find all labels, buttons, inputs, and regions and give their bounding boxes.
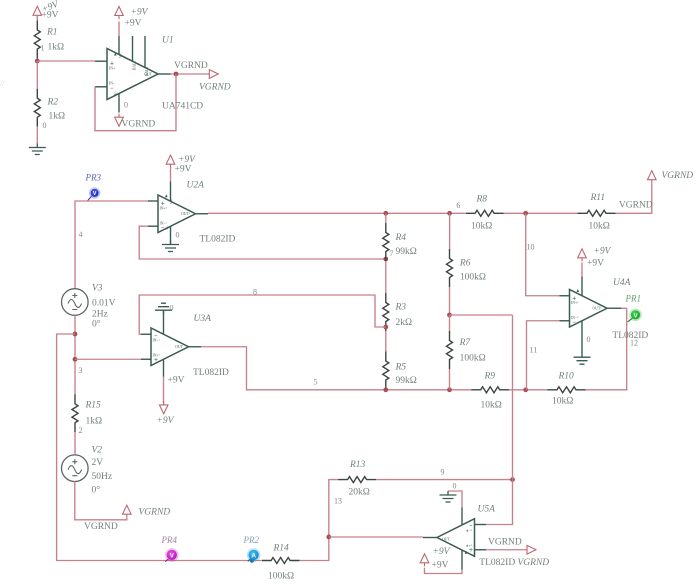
- wire R10 to U4A feedback riser: [586, 308, 627, 390]
- svg-text:0°: 0°: [92, 485, 101, 496]
- svg-text:10kΩ: 10kΩ: [552, 397, 573, 407]
- wire R1 bottom to node A junction: [36, 59, 38, 62]
- svg-text:VGRND: VGRND: [662, 171, 694, 181]
- svg-text:+9V: +9V: [433, 547, 451, 557]
- svg-text:BAL2: BAL2: [132, 60, 136, 70]
- svg-text:IN+: IN+: [109, 66, 115, 70]
- svg-text:R8: R8: [476, 195, 488, 205]
- svg-text:+9V: +9V: [432, 561, 449, 571]
- wire U5A output to net13 junction: [329, 536, 423, 538]
- wire R15 to V2: [74, 432, 76, 455]
- U3A V- pin (top, to ground): [163, 311, 165, 334]
- wire net 10: top rail to U4A IN+: [526, 213, 560, 295]
- VGRND right connector (U1 out): [209, 70, 218, 79]
- svg-text:+9V: +9V: [594, 247, 612, 257]
- ground (U2A): [162, 241, 179, 252]
- svg-text:+9V: +9V: [168, 376, 185, 386]
- resistor R3: [383, 293, 389, 331]
- svg-text:6: 6: [456, 201, 460, 210]
- wire U1 output to VGRND arrow: [171, 73, 210, 75]
- svg-text:R13: R13: [349, 460, 366, 470]
- svg-text:A: A: [251, 553, 256, 560]
- power +9V connector (U1): [115, 7, 124, 20]
- svg-text:−: −: [573, 320, 577, 326]
- junction R6/R7/net9: [447, 313, 452, 318]
- wire R4 to R3: [385, 261, 387, 293]
- svg-text:V2: V2: [92, 446, 103, 456]
- U5A IN+ wire to VGRND connector: [486, 549, 527, 551]
- svg-text:V+: V+: [119, 53, 123, 58]
- svg-text:2: 2: [79, 426, 83, 435]
- junction net13 (U5A out tee): [326, 535, 331, 540]
- U1 output pin stub: [158, 73, 171, 75]
- svg-text:+9V: +9V: [125, 19, 142, 29]
- svg-text:+9V: +9V: [175, 165, 192, 175]
- svg-text:UA741CD: UA741CD: [162, 102, 203, 112]
- svg-text:10kΩ: 10kΩ: [481, 401, 502, 411]
- svg-text:VGRND: VGRND: [518, 558, 550, 568]
- svg-text:R9: R9: [484, 372, 496, 382]
- svg-text:1kΩ: 1kΩ: [49, 112, 66, 122]
- svg-text:R2: R2: [47, 98, 59, 108]
- svg-text:50Hz: 50Hz: [92, 472, 113, 482]
- power +9V connector (U3A, pointing down): [159, 401, 168, 414]
- op-amp U5A triangle (mirrored): [437, 519, 475, 557]
- resistor R15: [72, 394, 78, 432]
- svg-text:OUT¹: OUT¹: [593, 306, 602, 310]
- wire U2A V+ to +9V connector: [170, 168, 172, 182]
- U2A V- pin: [170, 226, 172, 244]
- U5A V- pin (top): [461, 508, 463, 525]
- wire V3 bottom to junctions: [74, 315, 76, 394]
- svg-text:9: 9: [441, 468, 445, 477]
- wire junction to R2: [36, 61, 38, 89]
- svg-text:VGRND: VGRND: [174, 61, 208, 71]
- junction net8 (R3/R5): [383, 325, 388, 330]
- svg-text:100kΩ: 100kΩ: [460, 273, 486, 283]
- svg-text:IN+³: IN+³: [571, 301, 579, 305]
- op-amp U1 triangle: [107, 49, 158, 100]
- wire U4A out to feedback corner: [622, 307, 627, 309]
- svg-text:2kΩ: 2kΩ: [396, 318, 413, 328]
- VGRND up connector (V2): [123, 505, 132, 518]
- wire U4A V+ to +9V connector: [581, 263, 583, 277]
- junction V3-/left rail: [73, 332, 78, 337]
- wire R14 to net13 riser: [300, 480, 339, 561]
- wire R9 to R10: [509, 389, 547, 391]
- svg-text:2Hz: 2Hz: [92, 310, 108, 320]
- svg-text:VGRND: VGRND: [122, 120, 156, 130]
- wire net 11: U4A IN- down to net5: [527, 321, 560, 390]
- resistor R13: [338, 477, 376, 483]
- U2A output pin stub: [196, 213, 209, 215]
- wire net9 riser (R6/R7 junction down to U5A IN-): [486, 315, 513, 525]
- resistor R4: [383, 223, 389, 261]
- svg-text:R4: R4: [395, 233, 407, 243]
- svg-text:R3: R3: [395, 303, 407, 313]
- svg-text:U5A: U5A: [478, 505, 496, 515]
- svg-text:PR4: PR4: [161, 535, 178, 545]
- svg-text:V3: V3: [92, 284, 103, 294]
- svg-text:TL082ID: TL082ID: [193, 368, 229, 378]
- svg-text:0: 0: [124, 101, 128, 110]
- svg-text:4: 4: [79, 230, 83, 239]
- AC source V3: [62, 289, 89, 316]
- svg-text:VGRND: VGRND: [84, 522, 118, 532]
- wire junction right to net9 riser: [450, 314, 513, 316]
- svg-text://: //: [0, 79, 5, 88]
- svg-text:+9V: +9V: [42, 11, 59, 21]
- svg-text:100kΩ: 100kΩ: [268, 572, 294, 582]
- svg-text:0: 0: [587, 335, 591, 344]
- U4A V- pin: [581, 321, 583, 357]
- junction U1 output/feedback: [174, 72, 179, 77]
- svg-text:+9V: +9V: [131, 8, 149, 18]
- svg-text:0°: 0°: [92, 319, 101, 330]
- U4A output pin stub: [607, 307, 622, 309]
- probe PR4: [165, 559, 168, 562]
- svg-text:100kΩ: 100kΩ: [460, 354, 486, 364]
- U1 input pin stubs: [95, 60, 107, 62]
- U3A V+ pin (bottom): [163, 359, 165, 376]
- ground (U5A): [440, 491, 457, 502]
- resistor R14: [262, 558, 300, 564]
- node A junction (R1/R2/U1 IN+): [35, 59, 40, 64]
- svg-text:∗+²: ∗+²: [466, 544, 473, 548]
- wire R8 to R11: [504, 212, 578, 214]
- wire net6 junction down to R4: [385, 213, 387, 223]
- svg-text:VGRND: VGRND: [488, 538, 522, 548]
- svg-text:V−: V−: [165, 225, 169, 230]
- U3A input pin stubs: [141, 333, 151, 335]
- junction net6 at R6: [447, 211, 452, 216]
- svg-text:99kΩ: 99kΩ: [396, 247, 417, 257]
- VGRND right connector (U5A IN+): [527, 545, 536, 554]
- svg-text:U3A: U3A: [194, 314, 212, 324]
- svg-text:1kΩ: 1kΩ: [48, 43, 65, 53]
- wire U1 V+ pin to +9V connector: [118, 22, 120, 37]
- U5A output pin stub: [423, 537, 437, 539]
- probe PR2: [250, 559, 254, 563]
- svg-text:IN+²: IN+²: [153, 353, 161, 357]
- U4A input pin stubs: [560, 295, 570, 297]
- svg-text:U1: U1: [162, 36, 174, 46]
- ground (U3A top, flipped): [155, 303, 172, 314]
- svg-text:R7: R7: [459, 338, 472, 348]
- svg-text:0.01V: 0.01V: [92, 299, 116, 309]
- U2A V+ edge mark: [165, 194, 168, 197]
- svg-text:IN−²: IN−²: [571, 316, 579, 320]
- wire +9V arrow to R1: [36, 15, 38, 20]
- svg-text:+9V: +9V: [178, 155, 196, 165]
- junction net6 at R4: [383, 211, 388, 216]
- wire net6 junction down to R6: [449, 213, 451, 249]
- svg-text:VGRND: VGRND: [199, 83, 231, 93]
- svg-text:+9V: +9V: [157, 416, 175, 426]
- wire R3 to R5: [385, 331, 387, 352]
- wire R7 top: [449, 315, 451, 331]
- svg-text:OUT: OUT: [442, 537, 450, 541]
- svg-text:+9V: +9V: [587, 259, 604, 269]
- wire R11 to VGRND connector (top right): [616, 183, 652, 213]
- wire R5 to net5 rail: [385, 389, 387, 391]
- svg-text:OUT: OUT: [175, 345, 183, 349]
- svg-text:V+: V+: [170, 199, 174, 204]
- power +9V connector (U2A): [166, 155, 175, 168]
- svg-text:PR2: PR2: [243, 535, 260, 545]
- U2A V+ pin: [170, 182, 172, 202]
- power +9V connector (U5A): [420, 554, 429, 567]
- svg-text:7: 7: [390, 249, 394, 258]
- VGRND up connector (top right): [648, 171, 657, 184]
- junction net7 (R4/R3): [383, 257, 388, 262]
- svg-text:10kΩ: 10kΩ: [589, 222, 610, 232]
- resistor R11: [578, 210, 616, 216]
- U1 top pins V+ BAL2 BAL1: [118, 36, 120, 55]
- svg-text:R10: R10: [558, 372, 575, 382]
- wire R6 to junction: [449, 287, 451, 315]
- svg-text:V: V: [93, 191, 97, 197]
- resistor R9: [471, 387, 509, 393]
- U2A input pin stubs: [148, 200, 158, 202]
- resistor R10: [548, 387, 586, 393]
- resistor R1: [34, 21, 40, 59]
- svg-text:IN−²: IN−²: [160, 221, 168, 225]
- svg-text:R6: R6: [459, 259, 471, 269]
- svg-text:BAL1: BAL1: [145, 66, 149, 76]
- junction net9: [510, 477, 515, 482]
- wire net 3: junction to U3A IN+: [75, 358, 141, 360]
- svg-text:1: 1: [41, 44, 45, 53]
- VGRND down connector (U1 V-): [115, 114, 124, 127]
- wire R13 to net9 riser: [376, 479, 512, 481]
- op-amp U2A triangle: [158, 195, 196, 233]
- svg-text:VGRND: VGRND: [139, 508, 171, 518]
- svg-text:U2A: U2A: [187, 181, 205, 191]
- resistor R8: [466, 210, 504, 216]
- power +9V connector (U4A): [578, 249, 587, 262]
- wire U5A V+ to +9V connector: [425, 568, 463, 574]
- wire V2 bottom to VGRND connector: [75, 482, 127, 520]
- svg-text:1kΩ: 1kΩ: [86, 417, 103, 427]
- resistor R6: [447, 249, 453, 287]
- svg-text:IN−: IN−: [109, 81, 115, 85]
- probe PR1: [628, 318, 633, 322]
- wire R2 bottom to ground: [36, 127, 38, 144]
- svg-text:TL082ID: TL082ID: [200, 235, 236, 245]
- wire left rail: V3 junction down and along bottom: [57, 334, 262, 561]
- svg-text:V: V: [634, 313, 638, 319]
- svg-text:VGRND: VGRND: [619, 201, 653, 211]
- wire node A to U1 IN+: [37, 60, 95, 62]
- svg-text:R11: R11: [590, 193, 606, 203]
- svg-text:V−: V−: [114, 90, 118, 95]
- wire net 6 rail: U2A out to R8: [208, 212, 465, 214]
- junction net6/net10 (R8-R11): [523, 211, 528, 216]
- junction net5/net11: [523, 387, 528, 392]
- U5A V+ pin (bottom): [461, 550, 463, 570]
- svg-text:2V: 2V: [92, 458, 104, 468]
- svg-text:13: 13: [334, 497, 342, 506]
- junction U3A IN+ tee: [73, 357, 78, 362]
- svg-text:R5: R5: [395, 363, 407, 373]
- wire U5A V- to ground (L-shape): [448, 491, 462, 508]
- svg-text:R14: R14: [273, 544, 290, 554]
- wire U1 feedback loop IN- to output: [95, 74, 176, 131]
- svg-text:0: 0: [43, 121, 47, 130]
- U5A input pin stubs: [475, 524, 487, 526]
- svg-text:R15: R15: [85, 401, 102, 411]
- svg-text:20kΩ: 20kΩ: [349, 488, 370, 498]
- op-amp U4A triangle: [570, 290, 608, 328]
- svg-text:8: 8: [253, 288, 257, 297]
- U1 V+ edge mark: [114, 53, 117, 56]
- svg-text:10: 10: [527, 243, 535, 252]
- svg-text:5: 5: [314, 378, 318, 387]
- svg-text:0: 0: [453, 482, 457, 491]
- svg-text:3: 3: [79, 366, 83, 375]
- svg-text:IN−¹: IN−¹: [153, 338, 160, 342]
- svg-text:99kΩ: 99kΩ: [396, 376, 417, 386]
- svg-text:12: 12: [630, 339, 638, 348]
- svg-text:PR1: PR1: [625, 294, 642, 304]
- svg-text:∗−³: ∗−³: [466, 529, 473, 533]
- wire net 5: U3A out down to rail: [201, 347, 471, 390]
- resistor R7: [447, 331, 453, 369]
- svg-text:U4A: U4A: [613, 278, 631, 288]
- svg-text:10kΩ: 10kΩ: [471, 222, 492, 232]
- wire U3A V+ to +9V connector (down): [163, 377, 165, 404]
- wire net 4: U2A IN+ to V3 top: [75, 201, 148, 289]
- svg-text:IN+³: IN+³: [160, 206, 168, 210]
- ground (U4A): [574, 357, 591, 364]
- wire net 8: U3A IN- loop to R3/R5 junction: [139, 295, 386, 334]
- U1 bottom pin V-: [118, 94, 120, 113]
- U4A V+ pin: [581, 277, 583, 296]
- ground (below R2): [29, 144, 46, 155]
- svg-text:OUT¹: OUT¹: [181, 212, 190, 216]
- U4A V+ edge mark: [577, 289, 580, 292]
- junction net5 at R7: [447, 387, 452, 392]
- power +9V connector (top-left, feeds R1): [33, 6, 42, 19]
- svg-text:11: 11: [530, 346, 538, 355]
- svg-text:0: 0: [170, 304, 174, 313]
- U3A output pin stub: [189, 346, 202, 348]
- svg-text:TL082ID: TL082ID: [479, 558, 515, 568]
- svg-text:0: 0: [176, 231, 180, 240]
- resistor R5: [383, 352, 389, 390]
- op-amp U3A triangle: [151, 328, 189, 366]
- wire R7 to net5 rail: [449, 369, 451, 390]
- junction net5 at R5: [383, 387, 388, 392]
- resistor R2: [34, 89, 40, 127]
- wire U2A IN- feedback to net 7: [139, 226, 386, 259]
- svg-text:R1: R1: [46, 28, 58, 38]
- AC source V2: [62, 455, 89, 482]
- svg-text:PR3: PR3: [85, 173, 102, 183]
